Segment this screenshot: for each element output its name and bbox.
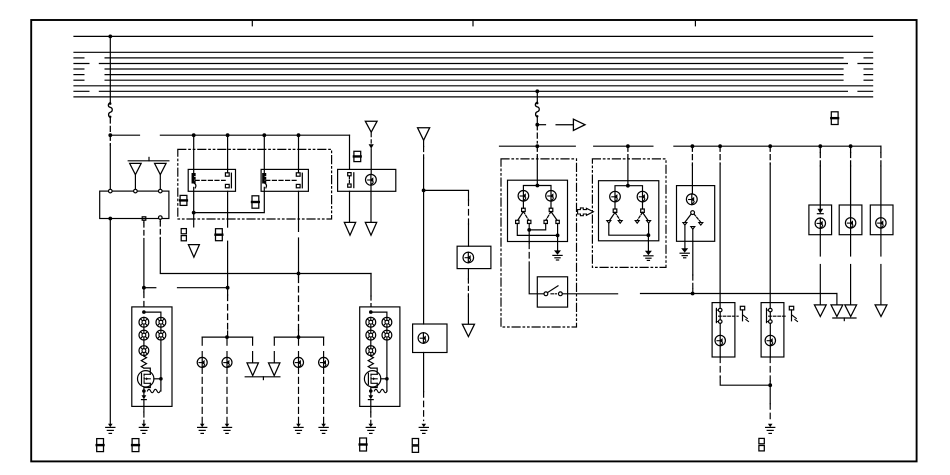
wire RR combination to ground bbox=[143, 406, 145, 412]
wire flasher out2 bbox=[370, 185, 372, 222]
bulb B8 (tail) bbox=[819, 218, 821, 228]
LED RL combinationc bbox=[370, 346, 372, 356]
connector J2 bbox=[252, 196, 259, 208]
node N9 bbox=[626, 144, 630, 148]
resistor R-RR combination bbox=[141, 356, 146, 368]
wire SM1 to ground marker bbox=[467, 269, 469, 279]
ground marker T4 bbox=[247, 363, 258, 376]
wire L2 down bbox=[850, 228, 852, 256]
ground marker T10 bbox=[462, 324, 474, 336]
ground marker T5 bbox=[269, 363, 280, 376]
contact SW1-R bbox=[549, 208, 553, 211]
resistor R2-RL combination bbox=[374, 389, 387, 392]
resistor R2-RR combination bbox=[147, 389, 160, 392]
wire G-left mid bbox=[226, 337, 228, 345]
wire N8 to SW1 bbox=[536, 146, 538, 157]
wire U1-out2 down bbox=[143, 220, 145, 222]
wire hazard out bbox=[562, 293, 617, 295]
node N10 bbox=[691, 144, 695, 148]
wire y293 run bbox=[641, 293, 837, 295]
wire SW3 bar bbox=[609, 223, 649, 235]
ground marker T12 bbox=[845, 305, 857, 317]
wire N12 to M2 bbox=[769, 146, 771, 164]
wire N1 to U1 bbox=[109, 135, 111, 145]
wire fuse to node bbox=[109, 118, 111, 135]
flasher lamp bbox=[370, 174, 372, 185]
wire N14 to L2 bbox=[850, 146, 852, 152]
node qb-RR combination bbox=[142, 389, 146, 393]
ground G9 (solid) bbox=[681, 248, 688, 252]
tail lamp box L2 bbox=[839, 205, 862, 235]
wire N6 branch bbox=[424, 190, 469, 200]
bulb B3 (tail) bbox=[298, 357, 300, 367]
node N8 bbox=[535, 144, 539, 148]
contact U3 bbox=[691, 211, 695, 215]
wire feed corner to L3 bbox=[880, 146, 882, 152]
wire left drop from bus bbox=[109, 36, 111, 102]
node bus-tap left bbox=[108, 35, 112, 39]
LED RR combinationc bbox=[143, 346, 145, 356]
wire relay1 sw down dashed bbox=[227, 295, 229, 331]
node relay2 pin2 bbox=[297, 133, 301, 137]
ground G5 bbox=[321, 424, 326, 427]
ground G6 bbox=[422, 424, 427, 427]
shared ground bar bbox=[245, 376, 280, 378]
node qb-RL combination bbox=[369, 389, 373, 393]
node N1 bbox=[108, 133, 112, 137]
resistor R-RL combination bbox=[368, 356, 373, 368]
bulb B7 (panel) bbox=[691, 194, 693, 205]
ground marker T2 bbox=[155, 163, 167, 174]
door switch CL2 bbox=[789, 306, 793, 310]
node SW1-gnd bbox=[556, 234, 560, 238]
blade SW1-R bbox=[546, 212, 551, 220]
wire T9 down bbox=[423, 140, 425, 146]
wire relay2 coil top bbox=[263, 135, 265, 173]
node q-RL combination bbox=[385, 377, 389, 381]
wire RL combination to ground bbox=[370, 406, 372, 412]
fuse F2 bbox=[535, 102, 539, 117]
indicator lamp SW3-L bbox=[614, 191, 616, 202]
wire led links RL combination bbox=[370, 327, 372, 330]
flasher relay U2 bbox=[338, 169, 396, 191]
wire G-right bar bbox=[274, 336, 323, 338]
ground G8 (solid) bbox=[645, 251, 652, 255]
transistor Q-RR combination bbox=[138, 371, 154, 387]
wire tail feed U1-out3 bbox=[159, 219, 161, 221]
arrow A2 (to hazard) bbox=[556, 124, 573, 126]
ground G-RL combination bbox=[369, 424, 374, 427]
tail lamp box L3 bbox=[870, 205, 893, 235]
ground marker T3 bbox=[188, 245, 199, 258]
wire hazard feed bbox=[528, 230, 530, 243]
border tick 1 bbox=[251, 20, 253, 26]
contact points U3 bbox=[683, 223, 687, 226]
connector J4 bbox=[216, 229, 223, 241]
diode D-RL combination bbox=[368, 395, 373, 399]
courtesy lamp unit CL1 bbox=[712, 303, 735, 357]
node SW1-haz bbox=[527, 228, 531, 232]
ground G4 bbox=[296, 424, 301, 427]
node N5 bbox=[226, 286, 230, 290]
connector J5 bbox=[97, 439, 104, 452]
wire L1 down bbox=[819, 228, 821, 256]
contact points SW1 bbox=[516, 220, 519, 223]
connector J8 bbox=[354, 151, 361, 161]
blade U3-L bbox=[685, 214, 691, 222]
LED RL combinationd bbox=[386, 317, 388, 327]
wire CL1 internal bbox=[719, 312, 721, 320]
wire SW3 to ground bbox=[647, 235, 649, 251]
wire N11 to M1 bbox=[719, 146, 721, 164]
border tick 3 bbox=[694, 20, 696, 26]
ground G-RR combination bbox=[142, 424, 147, 427]
node N7 bbox=[535, 123, 539, 127]
contact points SW3 bbox=[607, 221, 611, 224]
bulb CL2 bbox=[769, 335, 771, 345]
switch unit SW1 inner box bbox=[508, 180, 568, 241]
contact SW1-L bbox=[522, 208, 526, 211]
corner switch enclosure SW3 (dash-dot) bbox=[592, 159, 666, 268]
ground marker T1 bbox=[130, 163, 142, 174]
node N6 bbox=[422, 189, 426, 193]
side marker lamp box SM1 bbox=[457, 246, 491, 268]
wire N10 to U3 bbox=[691, 146, 693, 165]
wire N7 stub bbox=[537, 124, 545, 126]
indicator lamp SW1-L bbox=[522, 191, 524, 202]
LED RR combinatione bbox=[160, 330, 162, 340]
wire N13 to L1 bbox=[819, 146, 821, 152]
node N12 bbox=[768, 144, 772, 148]
wire U1-out1 to ground bbox=[109, 219, 111, 424]
LED RL combinationb bbox=[370, 330, 372, 340]
connector J6 bbox=[132, 439, 139, 452]
wire relay2 sw top bbox=[298, 135, 300, 173]
ground G1 bbox=[108, 424, 113, 427]
wire relay1 sw top bbox=[227, 135, 229, 173]
node SW3-gnd bbox=[647, 233, 651, 237]
node bus-tap right bbox=[535, 89, 539, 93]
relay RL2 (fog relay) bbox=[261, 169, 308, 191]
ground G3 bbox=[225, 424, 230, 427]
blade SW3-L bbox=[610, 212, 615, 220]
node N13 bbox=[818, 144, 822, 148]
node N3 bbox=[297, 272, 301, 276]
node N11 bbox=[718, 144, 722, 148]
wire right drop bbox=[536, 91, 538, 102]
wire SW1 inner bar bbox=[529, 224, 546, 230]
wire B4 to ground bbox=[323, 367, 325, 423]
node G-right bbox=[297, 335, 301, 339]
wire SW1 split bbox=[523, 186, 551, 191]
connector J7 bbox=[360, 438, 367, 451]
connector J10 bbox=[759, 438, 764, 443]
turn switch enclosure SW1 (dash-dot) bbox=[501, 159, 577, 327]
LED RL combinatione bbox=[386, 330, 388, 340]
tail lamp box L1 bbox=[809, 205, 832, 235]
node N16 bbox=[768, 383, 772, 387]
bulb B1 (license) bbox=[201, 357, 203, 367]
door switch CL1 bbox=[740, 306, 744, 310]
node relay1 pin2 bbox=[226, 133, 230, 137]
switch unit SW3 inner box bbox=[599, 181, 659, 241]
bulb B5 (side marker) bbox=[467, 252, 469, 263]
wire flasher out1 bbox=[349, 191, 351, 222]
double arrow symbol bbox=[578, 208, 594, 216]
relay RL1 (tail relay) bbox=[188, 169, 235, 191]
bulb B2 (license) bbox=[226, 357, 228, 367]
shared ground bar right bbox=[833, 317, 856, 319]
arrow A1 bbox=[369, 144, 374, 149]
indicator lamp SW1-R bbox=[550, 191, 552, 202]
ECU U1 (light control) bbox=[100, 191, 169, 218]
wire M2 down bbox=[769, 357, 771, 381]
contact SW3-L bbox=[613, 209, 617, 212]
blade U3-R bbox=[694, 214, 701, 222]
wire L3 down bbox=[880, 228, 882, 256]
wire G-right mid bbox=[298, 337, 300, 345]
shield bar over U1 inputs bbox=[128, 160, 169, 162]
wire B3 to ground bbox=[298, 367, 300, 423]
bulb B4 (tail) bbox=[323, 357, 325, 367]
license lamp box LP1 bbox=[413, 324, 447, 353]
wire relay1 coil down bbox=[193, 187, 195, 212]
bus wire W1 (top feed) bbox=[74, 35, 873, 37]
wire N9 to SW3 bbox=[627, 146, 629, 158]
wire feed to flasher bbox=[349, 135, 351, 169]
connector J1 bbox=[180, 195, 187, 205]
node SW1 split bbox=[536, 184, 540, 188]
wire gate RR combination bbox=[154, 378, 161, 380]
hazard switch SW2 bbox=[537, 277, 567, 307]
node relay2 pin1 bbox=[262, 133, 266, 137]
wire col2 down RL combination bbox=[386, 340, 388, 379]
blade SW3-R bbox=[637, 212, 642, 220]
LED RR combinationd bbox=[160, 317, 162, 327]
connector J3 bbox=[181, 229, 186, 234]
node N4 bbox=[142, 286, 146, 290]
wire relay2 sw down bbox=[298, 191, 300, 231]
wire U3 out bbox=[692, 229, 694, 241]
LED RR combinationb bbox=[143, 330, 145, 340]
wire U3 to ground bbox=[684, 225, 686, 248]
wire SW3 split bbox=[615, 186, 643, 191]
wire relay1 coil top bbox=[193, 135, 195, 173]
wire B2 to ground bbox=[226, 367, 228, 423]
wire gate RL combination bbox=[381, 378, 387, 380]
ground marker T8 bbox=[365, 222, 376, 235]
wire col2 down RR combination bbox=[160, 340, 162, 379]
blade SW1-L bbox=[518, 212, 524, 220]
wire y293 corner down bbox=[836, 294, 838, 305]
wire N7 down bbox=[536, 118, 538, 125]
wire feed y146 bbox=[500, 145, 576, 147]
LED RL combinationa bbox=[370, 317, 372, 327]
LED RR combinationa bbox=[143, 317, 145, 327]
lamp unit RR combination bbox=[132, 307, 172, 407]
power marker T9 bbox=[418, 128, 430, 141]
wire N2 to relay2 bbox=[194, 187, 265, 212]
wire led links RR combination bbox=[143, 327, 145, 330]
node relay1 pin1 bbox=[192, 133, 196, 137]
junction box B1 (dash-dot enclosure) bbox=[178, 149, 332, 219]
wire N4 jumper bbox=[144, 287, 156, 289]
wire N6 down bbox=[423, 190, 425, 324]
wire feed bus y135 bbox=[110, 134, 139, 136]
ground marker T13 bbox=[875, 305, 887, 317]
wire T7 tail bbox=[370, 132, 372, 143]
courtesy lamp unit CL2 bbox=[761, 303, 784, 357]
node N2 bbox=[192, 211, 196, 215]
node N14 bbox=[849, 144, 853, 148]
transistor Q-RL combination bbox=[364, 371, 380, 387]
wire T7 to flasher bbox=[370, 149, 372, 175]
bulb B6 (license) bbox=[422, 333, 424, 344]
ground G10 bbox=[768, 424, 773, 427]
wire relay1 sw down bbox=[227, 191, 229, 227]
lamp unit RL combination bbox=[360, 307, 400, 407]
diode D1 bbox=[817, 209, 823, 214]
node SW3 split bbox=[626, 184, 630, 188]
wire M1 down bbox=[719, 357, 721, 377]
wire CL2 internal bbox=[769, 312, 771, 320]
ground marker T14 bbox=[831, 305, 843, 317]
wire N2 stub bbox=[193, 213, 195, 227]
indicator lamp SW3-R bbox=[642, 191, 644, 202]
border tick 2 bbox=[472, 20, 474, 26]
panel lamp unit U3 bbox=[677, 186, 715, 242]
node G-left bbox=[225, 335, 229, 339]
ground marker T11 bbox=[814, 305, 826, 317]
wire N4 to lamp F bbox=[143, 292, 145, 307]
ground marker T6 bbox=[344, 222, 355, 235]
wire G-left bar bbox=[202, 336, 252, 338]
bulb B10 (tail) bbox=[880, 218, 882, 228]
contact SW3-R bbox=[641, 209, 645, 212]
power marker T7 bbox=[365, 121, 377, 132]
fuse F1 bbox=[108, 103, 112, 118]
bulb B9 (tail) bbox=[850, 218, 852, 228]
wire B1 to ground bbox=[201, 367, 203, 423]
bus wires W2-W10 bbox=[74, 51, 873, 53]
wire SW1 to ground bbox=[557, 235, 559, 250]
wire LP1 down bbox=[423, 353, 425, 392]
node N15 bbox=[691, 292, 695, 296]
diode D-RR combination bbox=[142, 395, 147, 399]
connector J9 bbox=[412, 439, 418, 445]
connector J11 bbox=[831, 112, 838, 125]
wire feed to lamp H bbox=[370, 274, 372, 297]
node q-RR combination bbox=[159, 377, 163, 381]
ground G2 bbox=[200, 424, 205, 427]
wire SW1 outer bar bbox=[517, 224, 557, 236]
bulb CL1 bbox=[719, 335, 721, 345]
ground G7 (solid) bbox=[554, 250, 561, 254]
